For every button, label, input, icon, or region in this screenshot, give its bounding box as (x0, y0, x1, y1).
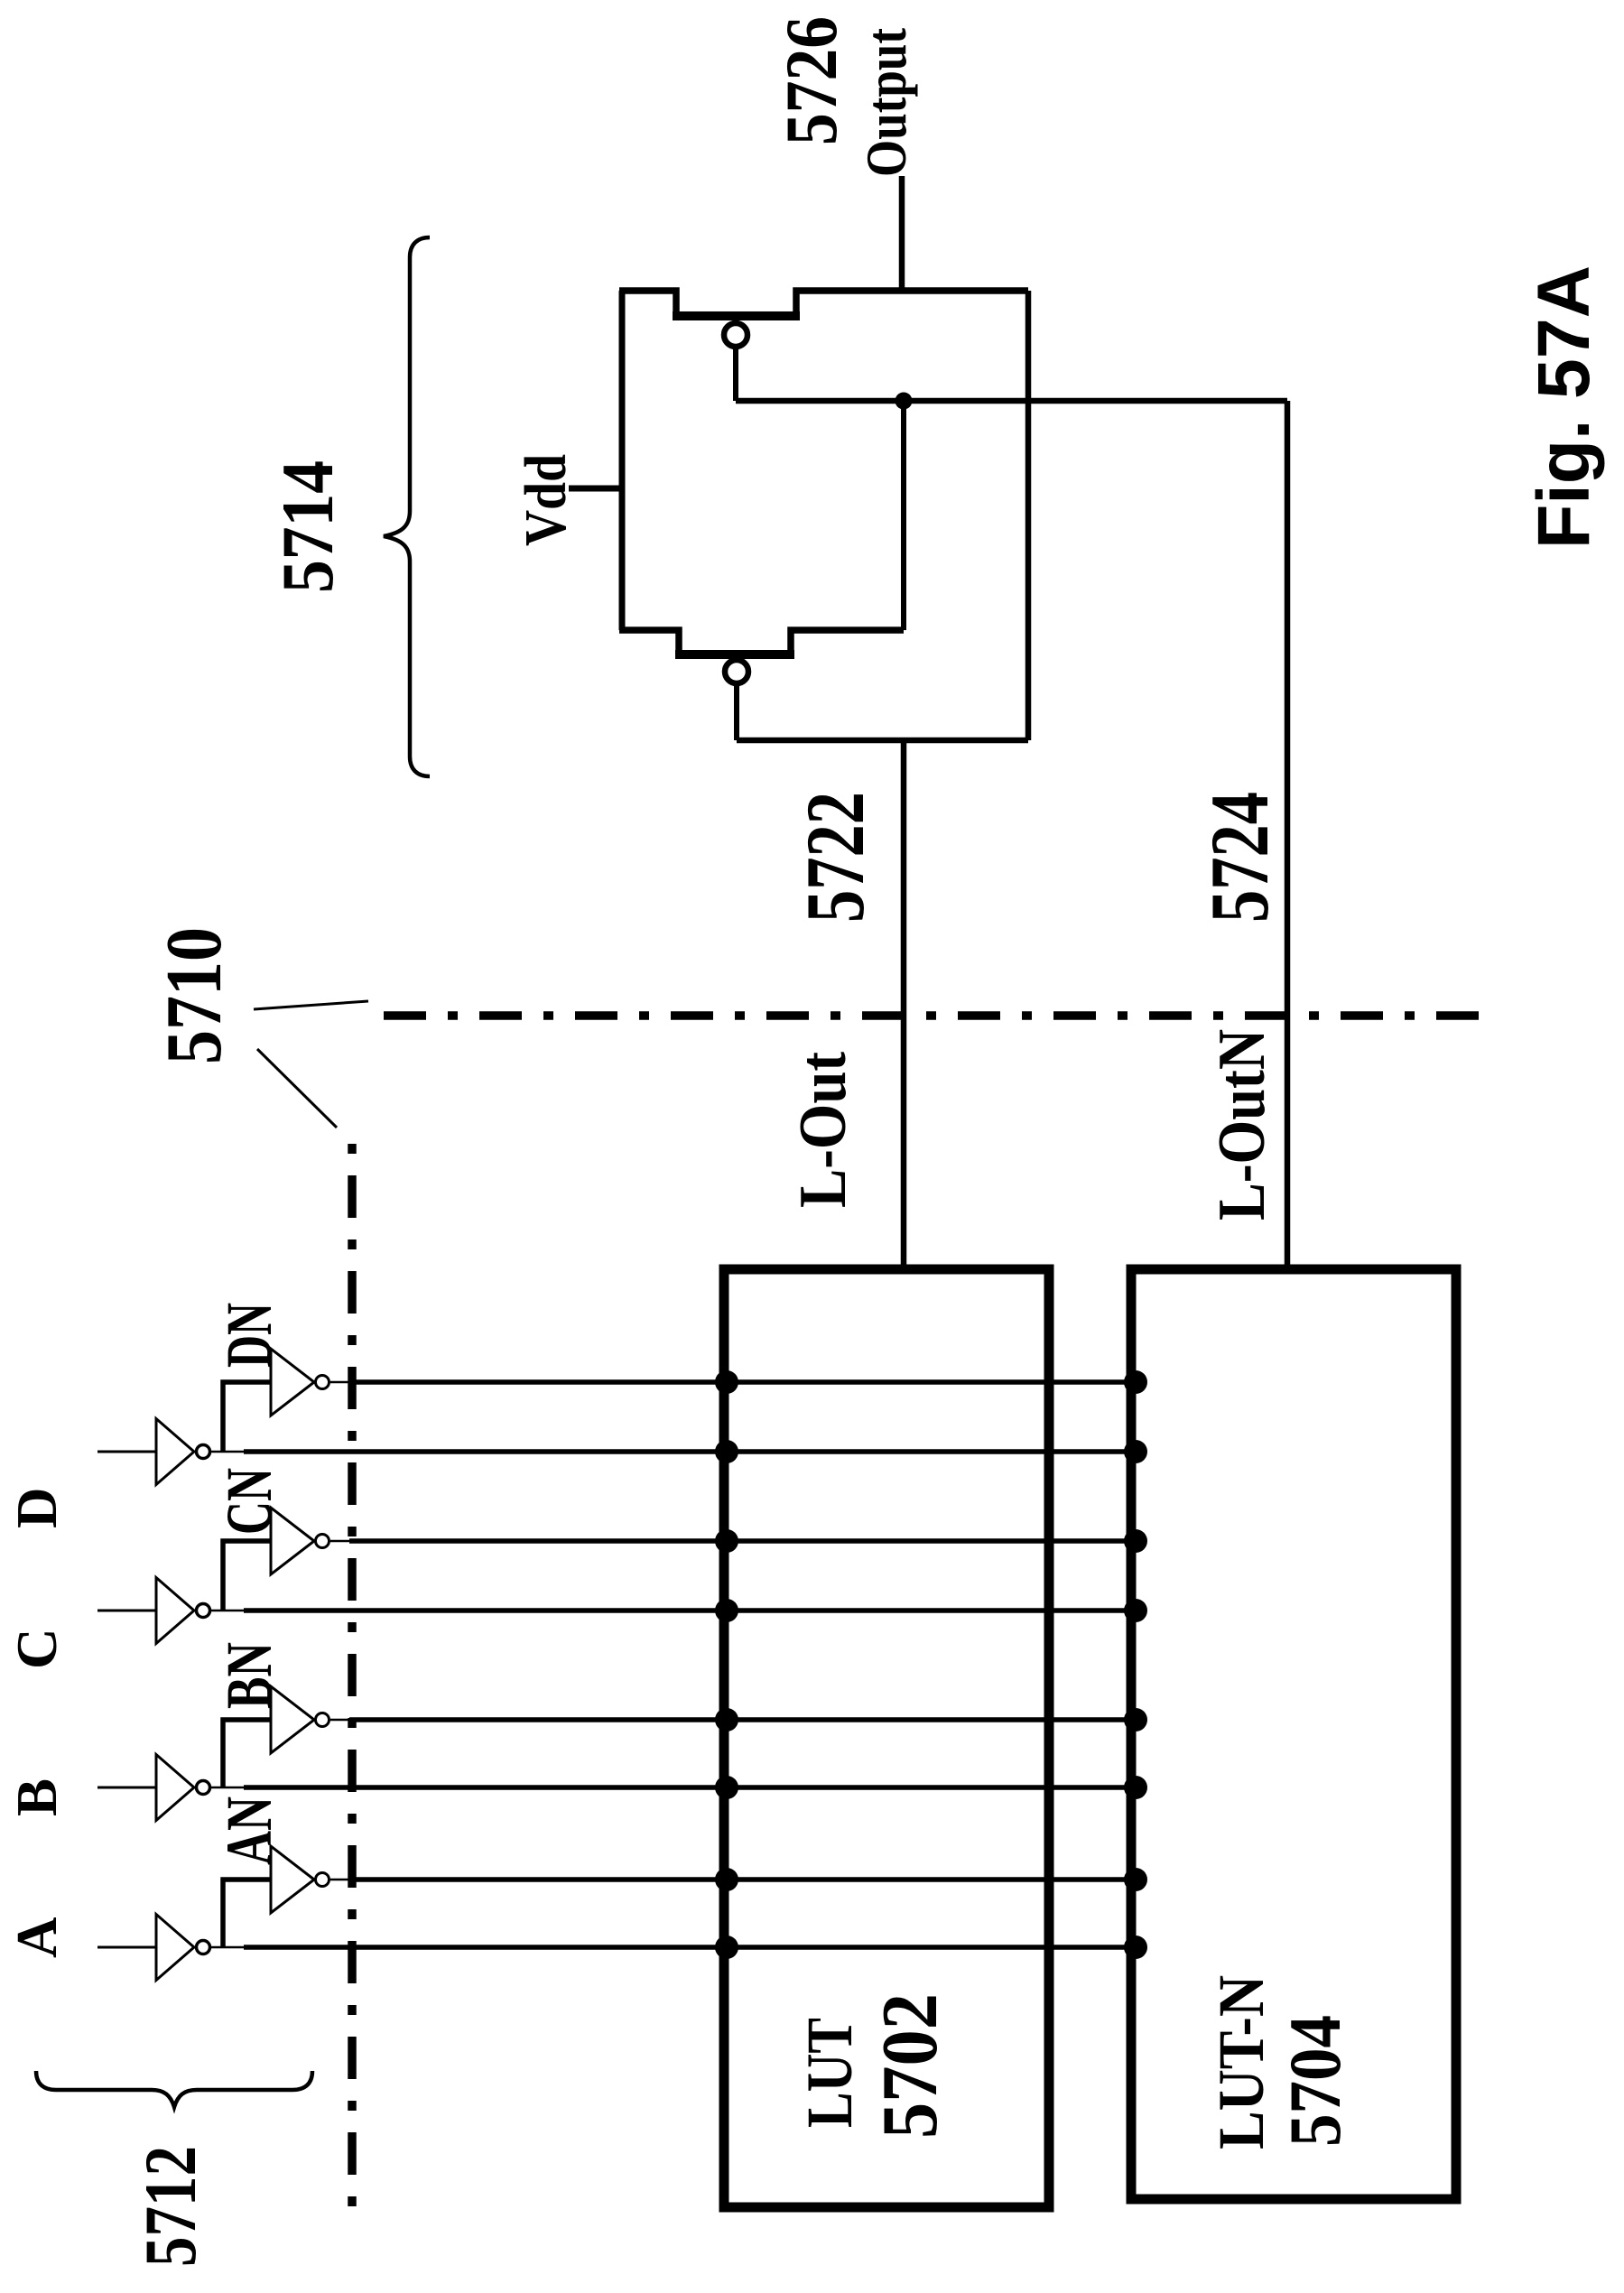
svg-text:L-Out: L-Out (786, 1052, 860, 1208)
svg-text:5712: 5712 (129, 2146, 211, 2267)
svg-text:D: D (5, 1488, 69, 1529)
svg-text:5722: 5722 (789, 792, 881, 923)
svg-text:LUT-N: LUT-N (1205, 1975, 1277, 2149)
svg-text:Vdd: Vdd (513, 454, 579, 546)
svg-text:5714: 5714 (266, 460, 348, 593)
svg-text:C: C (5, 1629, 69, 1670)
svg-text:5724: 5724 (1193, 792, 1285, 923)
svg-text:B: B (5, 1778, 69, 1816)
svg-text:5704: 5704 (1274, 2015, 1356, 2147)
svg-text:5710: 5710 (151, 927, 238, 1064)
svg-text:5702: 5702 (867, 1993, 954, 2139)
svg-text:LUT: LUT (793, 2018, 866, 2128)
svg-text:AN: AN (213, 1796, 285, 1865)
svg-text:Fig. 57A: Fig. 57A (1523, 265, 1605, 549)
svg-text:5726: 5726 (770, 16, 852, 145)
svg-text:L-OutN: L-OutN (1205, 1029, 1279, 1221)
svg-text:Output: Output (854, 27, 918, 177)
svg-text:BN: BN (213, 1642, 285, 1709)
svg-text:A: A (5, 1917, 69, 1958)
svg-text:CN: CN (213, 1468, 285, 1535)
svg-text:DN: DN (213, 1303, 285, 1368)
